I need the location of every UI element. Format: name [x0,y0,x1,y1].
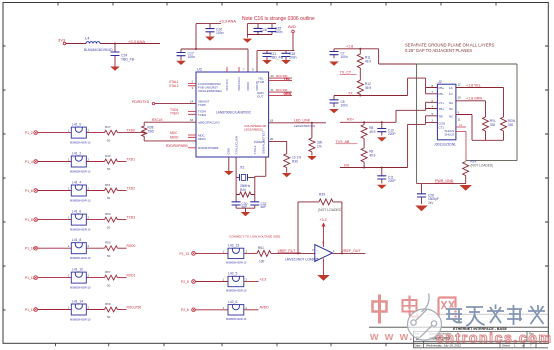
svg-text:P2_5: P2_5 [181,280,189,284]
wire [38,309,105,311]
power filter top-left [58,36,160,71]
ferrite bead L42_5 [228,276,244,286]
wire LED GRN pins [269,92,292,96]
ic U2 [132,67,269,158]
pin FXO/PWRDWN [188,83,196,85]
svg-text:NA: NA [449,101,453,105]
svg-text:49.9: 49.9 [365,60,371,64]
svg-text:330: 330 [508,123,514,127]
svg-text:49.9: 49.9 [369,130,375,134]
svg-text:10: 10 [458,96,462,100]
svg-text:MI0805K400R-10: MI0805K400R-10 [226,261,247,265]
wire chassis bottom [417,183,466,185]
svg-text:330: 330 [490,123,496,127]
wire [38,190,105,192]
blue watermark text [446,305,545,327]
svg-text:L42_13: L42_13 [228,243,239,247]
svg-text:TXD2: TXD2 [127,187,136,191]
wire [38,132,105,134]
svg-text:L41_6: L41_6 [72,210,81,214]
svg-text:MI0805K400R-10: MI0805K400R-10 [70,318,91,322]
svg-text:MI0805K400R-10: MI0805K400R-10 [226,317,247,321]
ground op-amp [323,259,325,276]
resistor R11 [359,49,361,54]
svg-text:100n: 100n [216,31,224,35]
svg-text:YEL: YEL [284,77,291,81]
svg-text:3V3: 3V3 [58,38,66,43]
svg-text:23: 23 [271,74,274,78]
svg-text:1A: 1A [449,86,453,90]
svg-text:RX+: RX+ [347,117,354,121]
ground [176,61,186,65]
resistor R47 [105,130,118,135]
svg-text:100n: 100n [289,56,297,60]
svg-text:VDDIO: VDDIO [246,81,250,91]
svg-text:P1_10: P1_10 [25,247,35,251]
svg-text:R30: R30 [292,160,298,164]
svg-text:VREF_OUT: VREF_OUT [342,249,362,253]
svg-text:RXCLK50: RXCLK50 [127,306,142,310]
resistor R8 [363,122,365,124]
svg-text:50: 50 [107,138,111,142]
svg-text:50: 50 [107,315,111,319]
capacitor C8 [333,96,335,108]
wire shield [456,127,466,161]
svg-text:LED1/MBDS2: LED1/MBDS2 [244,127,263,131]
svg-text:TXEN: TXEN [170,112,179,116]
svg-text:MDIO: MDIO [170,135,179,139]
wire rail 2 [247,24,276,38]
svg-text:L41_4: L41_4 [72,181,81,185]
termination networks [329,43,517,212]
capacitor C28 [421,184,423,204]
ground [205,37,215,41]
svg-text:TB-: TB- [439,114,444,118]
wire cap common [236,208,255,212]
svg-text:GND: GND [227,147,231,155]
wire to op-amp [271,252,315,254]
svg-text:XTAL2: XTAL2 [169,84,179,88]
capacitor C16 [257,24,259,35]
svg-text:LED_LINK: LED_LINK [294,119,311,123]
ground chassis [460,185,472,191]
svg-text:VCC3V3: VCC3V3 [225,79,229,91]
svg-text:L41_2: L41_2 [72,152,81,156]
svg-text:TXD1: TXD1 [127,158,136,162]
svg-text:CRS/LEDMODE2: CRS/LEDMODE2 [198,89,222,93]
wire MDIO row [144,140,196,142]
svg-text:GRN: GRN [284,92,292,96]
svg-text:L41_14: L41_14 [72,300,83,304]
capacitor C17 [180,49,182,61]
wire output VREF_OUT [332,252,365,254]
op-amp U2 body [196,72,269,157]
wire [38,219,105,221]
svg-text:TX: TX [348,91,353,95]
wire TX+ staircase [379,49,417,64]
wire AVD rail [257,33,295,72]
resistor R53 [105,217,118,222]
resistor R34 on PWDLB [269,141,287,172]
svg-text:PD/RXTXD: PD/RXTXD [132,100,150,104]
middle rows [180,235,315,322]
wire TX- staircase [408,78,438,95]
svg-text:J2: J2 [438,80,442,84]
svg-text:R61: R61 [258,246,264,250]
resistor R57 [105,275,118,280]
svg-text:+1.8: +1.8 [346,44,353,48]
capacitor C20 [209,24,211,37]
capacitor C15 [271,24,273,35]
ferrite bead L42_6 [228,305,244,315]
svg-text:AVDD: AVDD [260,306,270,310]
svg-text:+3.3: +3.3 [320,218,327,222]
svg-text:P1_13: P1_13 [180,252,190,256]
svg-text:P1_12: P1_12 [25,276,35,280]
wire [38,247,105,249]
capacitor C7 [333,49,335,58]
svg-text:BLM18AG601SN1D: BLM18AG601SN1D [84,48,113,52]
resistor R9 [361,148,367,162]
resistor RGN [501,117,507,131]
svg-text:TBD_FB: TBD_FB [121,58,135,62]
ground [243,39,253,43]
wire RX+ staircase [396,102,437,122]
svg-text:P1_4: P1_4 [25,160,33,164]
ground [241,212,251,216]
svg-text:50: 50 [107,254,111,258]
capacitor C11 [381,168,383,184]
svg-text:16: 16 [190,118,194,122]
svg-text:100n: 100n [188,55,196,59]
svg-text:2kV: 2kV [428,201,434,205]
ferrite bead L41_14 [71,304,86,315]
wire row1 tail [127,132,145,134]
resistor R51 [105,188,118,193]
capacitor C10 [381,122,383,135]
svg-text:L41_10: L41_10 [72,268,83,272]
resistor RYL [483,117,489,131]
resistor R14 not loaded [463,162,469,176]
wire feedback [298,202,342,254]
ground [282,173,292,177]
pin TXD4 TXEN [188,111,196,114]
wire LED YEL pins [269,78,292,81]
svg-text:MI0805K400R-10: MI0805K400R-10 [70,199,91,203]
svg-text:CONNECT TO LOW VOLTAGE SIDE: CONNECT TO LOW VOLTAGE SIDE [229,235,280,239]
svg-text:50: 50 [107,225,111,229]
svg-text:RX: RX [344,163,350,167]
svg-text:LMV321/NOT LOADED: LMV321/NOT LOADED [285,258,319,262]
svg-text:MI0805K400R-10: MI0805K400R-10 [226,289,247,293]
svg-text:Note C16 is strange 0306 outli: Note C16 is strange 0306 outline [242,16,315,22]
resistor R55 [105,246,118,251]
svg-text:1%: 1% [317,145,322,149]
logo circle [408,309,442,340]
wire [66,43,160,45]
svg-text:TXD0: TXD0 [127,129,136,133]
wire LED return [456,115,504,141]
wire rail [181,49,248,72]
ground [110,67,120,71]
resistor R12 [357,80,363,94]
svg-text:50: 50 [107,196,111,200]
ferrite bead L41_4 [71,185,86,196]
svg-text:14: 14 [190,100,194,104]
ferrite bead L41_2 [71,156,86,167]
svg-text:P2_6: P2_6 [181,308,189,312]
svg-text:CT+: CT+ [439,101,445,105]
svg-text:RXCLK: RXCLK [152,118,164,122]
wire [38,277,105,279]
svg-text:100n: 100n [275,30,283,34]
svg-text:L41_0: L41_0 [72,123,81,127]
svg-text:TX_CT: TX_CT [340,71,352,75]
wire RX bottom [340,167,408,169]
svg-text:21: 21 [271,88,274,92]
ferrite bead L41_10 [71,272,86,283]
svg-text:L4: L4 [85,36,90,41]
svg-text:12: 12 [458,82,462,86]
svg-text:R51: R51 [105,183,111,187]
svg-text:U2: U2 [197,67,203,72]
svg-text:MI0805K400R-10: MI0805K400R-10 [70,170,91,174]
watermark [369,294,553,346]
svg-text:cntronics.com: cntronics.com [436,330,553,346]
ferrite bead L41_8 [71,243,86,254]
title block [369,314,548,348]
svg-text:R55: R55 [105,241,111,245]
svg-text:18: 18 [270,119,274,123]
svg-text:Date:: Date: [415,343,422,347]
opamp [285,193,365,281]
wire [244,252,257,254]
svg-text:11: 11 [458,117,461,121]
svg-text:100n: 100n [341,55,348,59]
svg-text:RXD/RXPWRB: RXD/RXPWRB [198,146,218,150]
pin RXD wire [188,147,196,149]
svg-text:MI0805K400R-10: MI0805K400R-10 [70,256,91,260]
svg-text:TB+: TB+ [439,107,445,111]
wire +1.8 YEL [456,88,504,118]
svg-text:XTAL1/CLKIN: XTAL1/CLKIN [235,136,239,155]
wire [195,252,228,254]
svg-text:L42_5: L42_5 [228,272,238,276]
resistor R61 [257,250,271,256]
wire XTAL2 rail [255,157,266,201]
connector J2 body [437,84,456,140]
svg-text:R53: R53 [105,212,111,216]
wire [196,24,221,49]
svg-text:+3.3: +3.3 [260,277,267,281]
resistor R59 [105,307,118,312]
top pin stubs [227,67,239,72]
svg-text:50: 50 [107,167,111,171]
svg-text:J3011G21DNL: J3011G21DNL [434,143,456,147]
svg-text:TXD3: TXD3 [127,216,136,220]
resistor R38 [143,122,145,141]
wire +1.8 GRN [456,101,486,117]
resistor R40 [236,194,255,196]
svg-text:LAN8700IEC/LAN8700C: LAN8700IEC/LAN8700C [216,111,252,115]
svg-text:220P: 220P [388,132,395,136]
svg-text:+1.8 YEL: +1.8 YEL [466,83,481,87]
ferrite bead L41_6 [71,214,86,225]
wire TX bottom [334,95,408,97]
wire chassis top [417,64,517,184]
svg-text:VREF_FILT: VREF_FILT [278,249,296,253]
svg-text:TBD: TBD [148,130,155,134]
svg-text:XTAL2: XTAL2 [253,145,257,154]
svg-text:uMDC/RXCLKO: uMDC/RXCLKO [198,120,220,124]
wire RX top [340,121,396,123]
svg-text:(NOT LOADED): (NOT LOADED) [471,164,494,168]
wire [38,161,105,163]
svg-text:PWR_GND: PWR_GND [435,179,454,183]
svg-text:50: 50 [107,283,111,287]
svg-text:56P: 56P [261,205,267,209]
capacitor C30 [235,201,237,208]
svg-text:(NOT LOADED): (NOT LOADED) [318,208,342,212]
capacitor C18 [285,51,287,60]
svg-text:P1_6: P1_6 [25,189,33,193]
svg-text:+1.8 GRN: +1.8 GRN [466,97,482,101]
svg-text:TVS_AB: TVS_AB [336,140,350,144]
svg-text:TCB: TCB [258,80,264,84]
svg-text:PB-: PB- [439,92,444,96]
svg-text:100n: 100n [341,103,348,107]
svg-text:L42_6: L42_6 [228,300,238,304]
svg-text:PB+: PB+ [439,86,445,90]
svg-text:MI0805K400R-10: MI0805K400R-10 [70,141,91,145]
svg-text:X2: X2 [240,166,244,170]
connector J2 [432,80,516,161]
svg-text:RXD1: RXD1 [127,274,136,278]
resistor R35 [311,123,313,156]
svg-text:SHLD2: SHLD2 [445,133,455,137]
svg-text:100: 100 [259,259,265,263]
svg-text:220P: 220P [388,179,395,183]
svg-text:P1_8: P1_8 [25,218,33,222]
resistor R29 [319,199,333,205]
svg-text:w w w.: w w w. [369,331,414,343]
svg-text:R59: R59 [105,302,111,306]
bypass caps [176,16,315,72]
svg-text:MDIO: MDIO [198,137,206,141]
svg-text:MI0805K400R-10: MI0805K400R-10 [70,228,91,232]
svg-text:P1_2: P1_2 [25,131,33,135]
crystal [224,74,326,216]
capacitor C32 [254,201,256,208]
svg-text:49.9: 49.9 [365,86,371,90]
pin uMDC/RXCLKO wire [144,121,196,123]
resistor R49 [105,159,118,164]
svg-text:R29: R29 [319,193,325,197]
svg-text:PWDLB: PWDLB [254,140,265,144]
svg-text:P1_14: P1_14 [25,308,35,312]
svg-text:R47: R47 [105,125,111,129]
wire RX- staircase [408,116,438,168]
capacitor C24 [114,44,116,67]
wire XTAL1 rail [235,157,237,201]
ferrite bead L41_0 [71,127,86,138]
svg-text:+3.3 ANA: +3.3 ANA [219,19,236,24]
pin MDC MDIO [188,135,196,137]
svg-text:49.9: 49.9 [369,154,375,158]
svg-text:L41_8: L41_8 [72,238,81,242]
inductor L4 [86,42,100,44]
left column rows [25,122,196,321]
ground pin [228,157,230,171]
wire TX top [334,48,379,50]
wire LED_LINK [269,122,326,124]
svg-text:SEPARATE GROUND PLANE ON ALL L: SEPARATE GROUND PLANE ON ALL LAYERS [405,43,495,48]
svg-text:R49: R49 [105,154,111,158]
svg-text:MI0805K400R-10: MI0805K400R-10 [70,286,91,290]
svg-text:+3.3 ANA: +3.3 ANA [128,39,145,44]
svg-text:VDDA3V3: VDDA3V3 [237,77,241,91]
svg-text:TXEN: TXEN [198,113,206,117]
svg-text:AVD: AVD [288,24,296,29]
svg-text:RXD/RXPWRB: RXD/RXPWRB [166,144,188,148]
svg-text:R57: R57 [105,270,111,274]
svg-text:TXD5: TXD5 [198,103,206,107]
ferrite bead L42_13 [228,248,244,258]
svg-text:0.25" GAP TO ADJACENT PLANES: 0.25" GAP TO ADJACENT PLANES [405,48,472,53]
op-amp U9 [315,245,333,262]
svg-text:OUT: OUT [257,95,264,99]
capacitor C21 [266,51,268,60]
svg-text:RXD0: RXD0 [127,244,136,248]
svg-text:C16: C16 [261,28,267,32]
svg-text:26: 26 [270,137,274,141]
ground [307,156,317,160]
